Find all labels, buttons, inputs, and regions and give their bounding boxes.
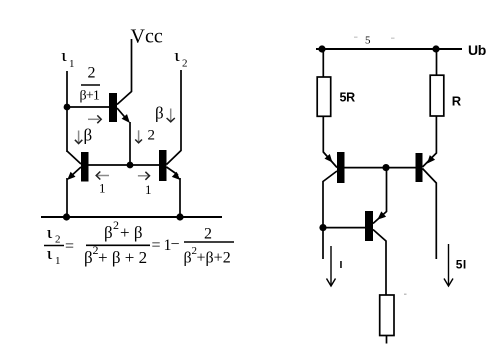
faint erased mark right — [391, 38, 395, 39]
equation middle bar — [86, 244, 150, 246]
wire T6 collector — [373, 230, 386, 296]
arrowhead T3 emitter — [122, 114, 130, 123]
wire node H to T6 emitter — [373, 168, 387, 224]
label i2 — [174, 46, 188, 70]
arrowhead T6 emitter — [377, 211, 386, 219]
arrowhead T1 emitter — [67, 172, 75, 180]
svg-text:1: 1 — [99, 181, 106, 196]
wire T1 collector — [67, 151, 81, 164]
svg-text:−: − — [171, 236, 180, 253]
faint speck — [404, 294, 407, 296]
arrowhead T2 emitter — [172, 172, 180, 180]
svg-text:5R: 5R — [340, 91, 356, 105]
wire T4 collector — [323, 171, 337, 259]
transistor T5 bar — [416, 153, 423, 182]
svg-text:2: 2 — [113, 218, 119, 232]
svg-text:2: 2 — [182, 58, 188, 70]
wire T4 base to node — [345, 167, 387, 169]
wire T5 base — [386, 167, 416, 169]
wire bases T1-T2 — [88, 164, 159, 166]
equation right bar — [184, 241, 234, 243]
arrowhead T5 emitter — [427, 155, 435, 164]
svg-text:2: 2 — [204, 226, 212, 243]
transistor T6 bar — [365, 211, 373, 241]
wire rail to R — [436, 49, 438, 75]
wire T6 base — [323, 227, 365, 229]
label down-beta — [75, 126, 92, 145]
label i1 — [61, 46, 75, 70]
svg-text:Vcc: Vcc — [131, 26, 163, 48]
svg-text:+β+2: +β+2 — [197, 250, 231, 267]
svg-text:+ β + 2: + β + 2 — [98, 248, 147, 267]
svg-text:2: 2 — [88, 65, 96, 82]
svg-text:1: 1 — [69, 58, 75, 70]
top rail (right circuit) — [316, 48, 462, 50]
wire base T3 — [67, 106, 109, 108]
svg-text:β: β — [184, 250, 192, 267]
current arrow 5I — [444, 244, 453, 286]
svg-text:β: β — [84, 248, 93, 267]
node E (rail / 5R) — [318, 45, 325, 52]
svg-text:=: = — [65, 238, 74, 255]
node D (rail right) — [176, 213, 183, 220]
wire below RE — [386, 336, 388, 344]
equation middle denominator — [84, 243, 147, 267]
label beta-down — [155, 104, 175, 123]
svg-text:R: R — [452, 94, 462, 109]
equation i2/i1 fraction — [44, 223, 64, 267]
fraction 2/(b+1) — [80, 65, 101, 104]
svg-text:ι: ι — [47, 223, 53, 242]
node A (i1 / base junction) — [64, 104, 71, 111]
svg-text:β: β — [104, 223, 113, 242]
svg-text:+ β: + β — [120, 223, 143, 242]
wire T2 emitter down — [179, 178, 181, 217]
node G (left bases) — [319, 224, 326, 231]
wire T1 emitter — [70, 167, 81, 177]
node F (rail / R) — [432, 45, 439, 52]
svg-text:ι: ι — [174, 46, 180, 65]
node B (center bases) — [127, 162, 134, 169]
wire T1 emitter down — [66, 178, 68, 217]
resistor RE (bottom) — [380, 295, 394, 336]
wire T3 collector to Vcc — [117, 39, 132, 105]
svg-text:Ub: Ub — [468, 42, 486, 58]
resistor 5R — [317, 77, 331, 116]
wire T2 collector — [167, 70, 182, 165]
transistor T2 bar — [159, 150, 167, 181]
arrow right (1 into T2) — [138, 172, 150, 180]
transistor T3 bar — [109, 93, 117, 122]
arrow right (base current into T3) — [88, 115, 101, 123]
wire T3 emitter down to center node — [129, 122, 131, 165]
wire T3 emitter — [117, 108, 128, 121]
wire T2 emitter — [167, 167, 179, 175]
svg-text:5: 5 — [365, 35, 371, 47]
equation right denominator — [184, 245, 231, 267]
svg-text:2: 2 — [55, 234, 61, 246]
svg-text:5I: 5I — [456, 258, 467, 272]
wire rail to 5R — [322, 49, 324, 77]
wire 5R to T4 emitter — [323, 117, 337, 168]
equation middle numerator — [104, 218, 143, 242]
current arrow I — [327, 246, 336, 286]
node H (center bases right) — [382, 164, 389, 171]
svg-text:β+1: β+1 — [80, 89, 100, 104]
node C (rail left) — [63, 213, 70, 220]
resistor R — [430, 75, 444, 116]
svg-text:2: 2 — [148, 128, 156, 144]
arrowhead T4 emitter — [325, 154, 333, 163]
svg-text:I: I — [340, 259, 343, 271]
svg-text:β: β — [84, 126, 93, 145]
bottom rail — [41, 216, 222, 218]
transistor T1 bar — [81, 152, 89, 182]
svg-text:=: = — [152, 237, 161, 254]
wire T5 collector — [423, 169, 437, 260]
wire R to T5 emitter — [423, 117, 437, 168]
label down-2 — [135, 128, 155, 144]
svg-text:β: β — [155, 104, 164, 123]
svg-text:ι: ι — [61, 46, 67, 65]
svg-text:1: 1 — [55, 255, 61, 267]
transistor T4 bar — [337, 152, 345, 183]
svg-text:1: 1 — [145, 182, 152, 197]
arrow left (1 into T1) — [96, 172, 109, 180]
svg-text:ι: ι — [47, 244, 53, 263]
wire i1 lead — [66, 71, 68, 152]
faint erased mark left — [354, 37, 358, 38]
